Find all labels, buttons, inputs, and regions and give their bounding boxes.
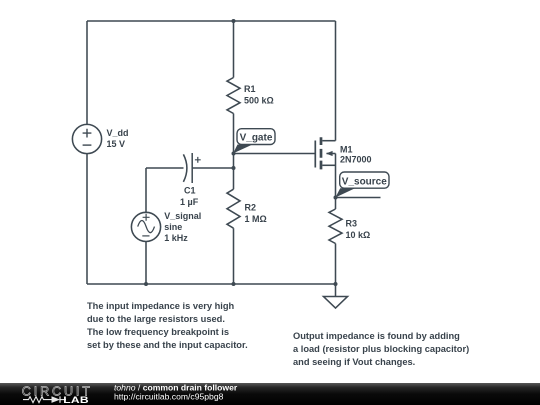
svg-text:1 µF: 1 µF [180, 197, 199, 207]
svg-text:500 kΩ: 500 kΩ [244, 96, 274, 106]
svg-text:a load (resistor plus blocking: a load (resistor plus blocking capacitor… [293, 344, 469, 354]
svg-text:M1: M1 [340, 145, 353, 155]
svg-text:LAB: LAB [63, 396, 89, 405]
svg-text:V_signal: V_signal [164, 211, 201, 221]
svg-text:15 V: 15 V [107, 139, 126, 149]
svg-text:R1: R1 [244, 84, 256, 94]
svg-text:The low frequency breakpoint i: The low frequency breakpoint is [87, 327, 229, 337]
svg-text:1 MΩ: 1 MΩ [245, 214, 267, 224]
svg-text:R3: R3 [346, 219, 358, 229]
svg-text:set by these and the input cap: set by these and the input capacitor. [87, 340, 248, 350]
svg-text:due to the large resistors use: due to the large resistors used. [87, 314, 225, 324]
svg-text:1 kHz: 1 kHz [164, 233, 188, 243]
svg-text:R2: R2 [245, 203, 257, 213]
svg-text:V_dd: V_dd [107, 128, 129, 138]
svg-text:The input impedance is very hi: The input impedance is very high [87, 301, 235, 311]
svg-text:http://circuitlab.com/c95pbg8: http://circuitlab.com/c95pbg8 [114, 391, 224, 401]
svg-text:V_source: V_source [342, 177, 387, 188]
svg-text:Output impedance is found by a: Output impedance is found by adding [293, 331, 460, 341]
svg-text:10 kΩ: 10 kΩ [346, 230, 371, 240]
svg-text:and seeing if Vout changes.: and seeing if Vout changes. [293, 357, 415, 367]
svg-text:sine: sine [164, 222, 182, 232]
svg-text:V_gate: V_gate [240, 133, 273, 144]
svg-text:2N7000: 2N7000 [340, 155, 372, 165]
svg-text:C1: C1 [184, 186, 196, 196]
